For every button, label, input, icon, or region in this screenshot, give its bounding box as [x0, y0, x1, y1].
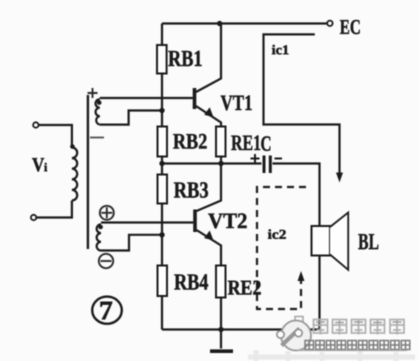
svg-text:RB3: RB3 — [174, 177, 209, 202]
svg-text:RE2: RE2 — [228, 276, 262, 300]
svg-text:VT2: VT2 — [208, 208, 248, 233]
svg-text:EC: EC — [340, 15, 361, 39]
svg-text:VT1: VT1 — [221, 90, 253, 115]
svg-text:RB2: RB2 — [173, 128, 207, 153]
svg-text:RB1: RB1 — [168, 46, 203, 71]
svg-text:i: i — [44, 160, 48, 174]
svg-text:7: 7 — [99, 295, 113, 325]
svg-text:ic1: ic1 — [272, 42, 290, 57]
svg-text:RB4: RB4 — [174, 269, 209, 294]
svg-text:ic2: ic2 — [268, 227, 287, 242]
svg-text:C: C — [261, 132, 272, 156]
svg-text:V: V — [32, 154, 45, 176]
svg-text:RE1: RE1 — [231, 130, 261, 155]
svg-text:BL: BL — [358, 229, 379, 254]
